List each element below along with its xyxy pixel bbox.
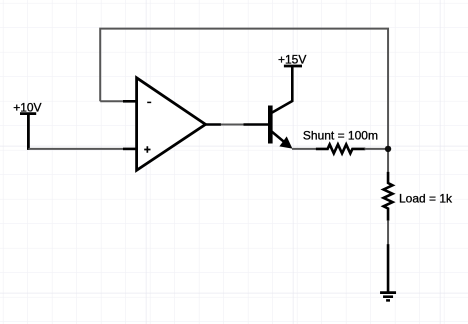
power +10V stem <box>27 115 30 150</box>
wire feedback loop from output node to inverting input <box>100 29 388 149</box>
transistor Q1 emitter <box>272 131 286 142</box>
op-amp minus symbol <box>147 101 151 103</box>
power +15V rail bar <box>284 65 302 68</box>
ground bar 2 <box>383 295 393 298</box>
resistor Shunt = 100m <box>316 144 365 153</box>
ground stem <box>387 244 390 292</box>
op-amp non-inverting pin <box>123 148 138 151</box>
wire node to load resistor <box>387 149 389 173</box>
ground bar 3 <box>386 299 390 302</box>
op-amp U1 triangle <box>137 78 206 171</box>
wire +10V to non-inverting input <box>28 148 123 150</box>
wire shunt to node <box>365 148 389 150</box>
transistor Q1 base bar <box>268 106 273 144</box>
resistor Load = 1k <box>384 172 393 221</box>
op-amp output pin <box>205 123 222 126</box>
node junction dot <box>385 146 391 152</box>
svg-text:Load = 1k: Load = 1k <box>399 192 453 206</box>
svg-text:+15V: +15V <box>278 53 306 67</box>
transistor Q1 collector <box>272 67 293 113</box>
wire inverting input <box>100 100 123 102</box>
wire load to ground <box>387 221 389 245</box>
power +10V rail bar <box>20 112 36 115</box>
transistor Q1 emitter arrow <box>279 136 292 148</box>
ground bar 1 <box>380 291 396 294</box>
wire emitter to shunt resistor <box>292 148 317 150</box>
svg-text:Shunt = 100m: Shunt = 100m <box>303 129 378 143</box>
op-amp inverting pin <box>123 100 138 103</box>
wire output to transistor base <box>221 124 244 126</box>
op-amp plus symbol <box>144 146 150 153</box>
transistor Q1 base pin <box>244 123 269 126</box>
